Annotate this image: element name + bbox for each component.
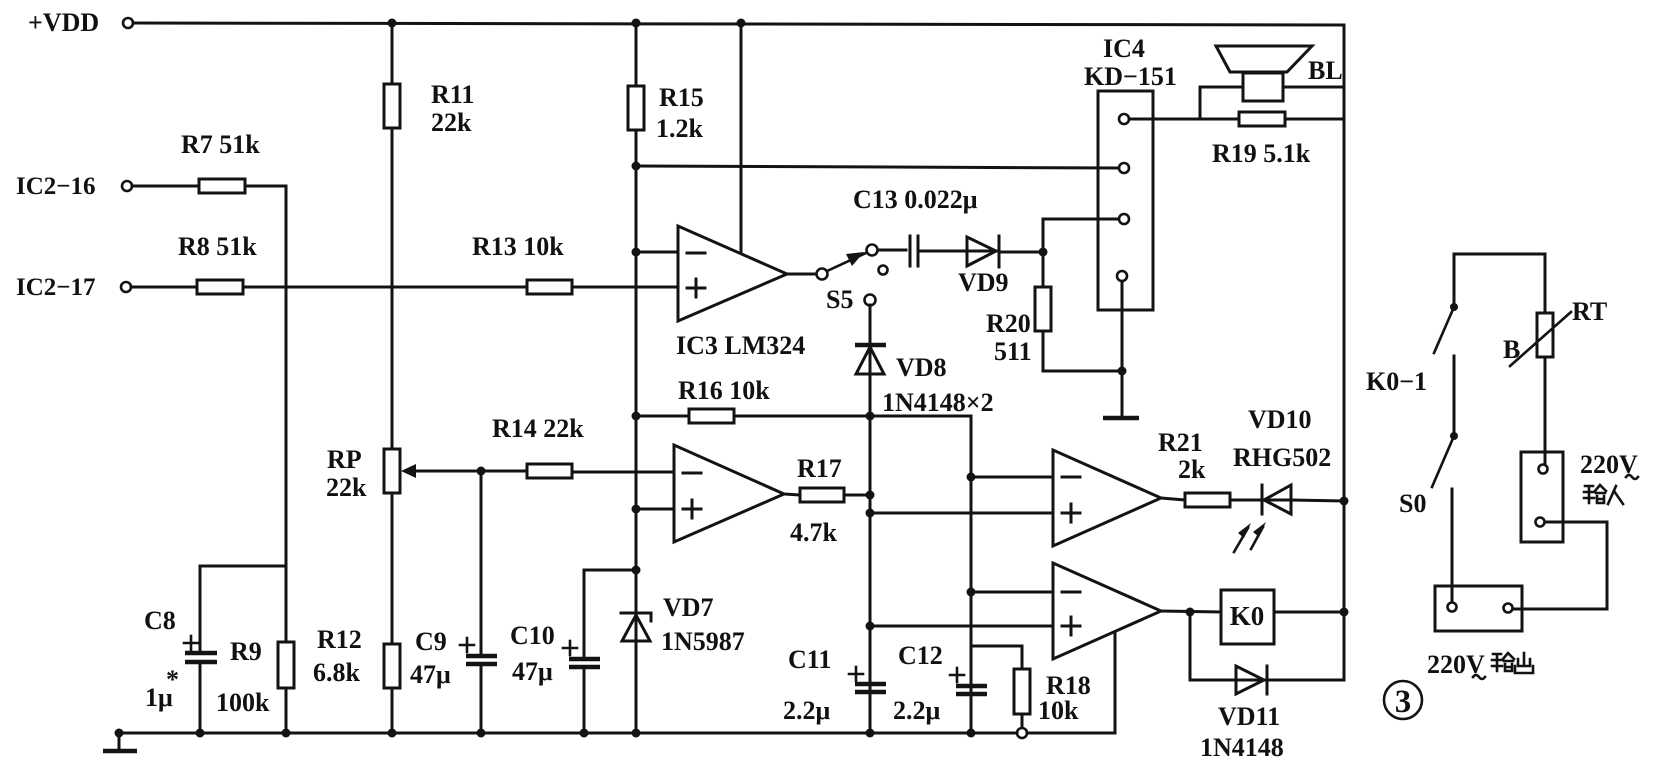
zener diode VD7 <box>621 593 745 733</box>
resistor R17 <box>790 454 844 547</box>
svg-text:VD9: VD9 <box>958 268 1009 297</box>
svg-text:IC2−17: IC2−17 <box>16 274 96 301</box>
junction ground node <box>1118 367 1127 376</box>
junction IC3b plus <box>632 505 641 514</box>
svg-text:S5: S5 <box>826 285 853 314</box>
wire RT top <box>1544 254 1547 313</box>
switch S5 throw 3 <box>826 285 876 314</box>
wire to IC3c minus input <box>971 476 1053 479</box>
wire to IC3d minus input <box>971 591 1053 594</box>
svg-text:VD7: VD7 <box>663 593 714 622</box>
junction rail C10 <box>580 729 589 738</box>
resistor R16 <box>678 376 770 423</box>
wire rail to op-amp IC3d <box>1027 632 1115 733</box>
svg-text:10k: 10k <box>1038 696 1079 725</box>
wire C8 top link <box>200 565 286 568</box>
wire R19 to right bus <box>1285 118 1343 121</box>
wire R13 to IC3 plus input <box>572 286 678 289</box>
wire C9 branch <box>480 471 483 655</box>
svg-text:IC4: IC4 <box>1103 34 1145 63</box>
svg-text:1N4148×2: 1N4148×2 <box>882 388 994 417</box>
junction RP wiper / C9 <box>477 467 486 476</box>
wire VD8 branch from S5 <box>869 305 872 345</box>
resistor R15 <box>628 83 704 143</box>
op-amp IC3c <box>1053 450 1161 546</box>
capacitor C10 <box>510 621 600 686</box>
wire R11 wiper line / potentiometer RP <box>326 445 527 502</box>
wire to IC3d plus input <box>870 625 1053 628</box>
label 220V output chinese <box>1492 653 1533 673</box>
capacitor C13 <box>853 185 978 266</box>
wire +VDD top rail <box>133 23 1343 25</box>
wire IC2-17 to R8 <box>131 286 197 289</box>
wire C10 branch <box>584 570 636 658</box>
wire IC3 power from rail <box>740 25 743 251</box>
junction rail C8 <box>196 729 205 738</box>
junction rail left end <box>115 729 124 738</box>
switch S5 throw 1 <box>867 245 878 256</box>
relay K0 <box>1221 590 1274 644</box>
junction on rail at R11 <box>388 19 397 28</box>
wire IC4 pin1 to R19 <box>1129 118 1239 121</box>
pin IC4-2 <box>1119 163 1129 173</box>
switch S5 throw 2 <box>879 266 888 275</box>
wire VDD to R15 <box>635 23 638 86</box>
wire R12 to rail <box>391 688 394 733</box>
wire R18 to rail <box>1021 714 1024 729</box>
wire K0-1 to S0 <box>1453 356 1456 435</box>
svg-text:C12: C12 <box>898 641 943 670</box>
svg-text:R7 51k: R7 51k <box>181 130 260 159</box>
resistor R9 <box>216 637 294 717</box>
svg-text:+VDD: +VDD <box>28 8 99 37</box>
junction IC3d plus <box>866 622 875 631</box>
svg-text:R13 10k: R13 10k <box>472 232 564 261</box>
svg-text:*: * <box>166 665 179 694</box>
junction rail R12 <box>388 729 397 738</box>
svg-text:511: 511 <box>994 337 1032 366</box>
wire right bus vertical <box>1343 25 1346 680</box>
wire RP bottom to R12 <box>391 493 394 644</box>
svg-text:S0: S0 <box>1399 489 1426 518</box>
wire IC3 minus input <box>636 251 678 254</box>
junction rail R9 <box>282 729 291 738</box>
svg-text:R9: R9 <box>230 637 262 666</box>
svg-text:RP: RP <box>327 445 362 474</box>
wire IC3a output <box>787 273 816 276</box>
wire R16 right to VD8 node and corner <box>734 416 971 477</box>
junction rail C9 <box>477 729 486 738</box>
op-amp IC3a <box>676 226 805 360</box>
wire input box to output box <box>1513 522 1607 609</box>
wire speaker right leg <box>1283 86 1343 89</box>
wire R21 to VD10 <box>1230 499 1260 502</box>
junction on rail at R15 <box>632 19 641 28</box>
junction R15 to IC4 pin wire <box>632 162 641 171</box>
wire C8 down <box>199 566 202 652</box>
svg-text:3: 3 <box>1395 684 1412 720</box>
op-amp IC3b <box>674 445 784 542</box>
wire R20 bottom to ground node <box>1043 331 1122 371</box>
svg-text:R16 10k: R16 10k <box>678 376 770 405</box>
svg-text:R21: R21 <box>1158 428 1203 457</box>
svg-text:C9: C9 <box>415 627 447 656</box>
wire R7 column to R9 <box>285 566 288 642</box>
wire VD10 to right bus <box>1291 500 1344 501</box>
diode VD9 <box>958 236 1009 297</box>
svg-text:VD11: VD11 <box>1218 702 1280 731</box>
svg-text:R14 22k: R14 22k <box>492 414 584 443</box>
svg-text:R15: R15 <box>659 83 704 112</box>
pin IC4-3 <box>1119 214 1129 224</box>
svg-text:C8: C8 <box>144 606 176 635</box>
junction IC3c minus <box>967 473 976 482</box>
junction VD9/R20 node <box>1039 248 1048 257</box>
resistor R19 <box>1212 112 1311 168</box>
wire VD9 to node <box>999 251 1043 254</box>
svg-text:IC2−16: IC2−16 <box>16 173 96 200</box>
wire C12 column <box>970 477 973 733</box>
wire ground rail bottom <box>119 732 1017 735</box>
svg-text:1N5987: 1N5987 <box>661 627 745 656</box>
LED VD10 <box>1233 405 1331 514</box>
capacitor C11 <box>783 645 886 725</box>
svg-text:C10: C10 <box>510 621 555 650</box>
wire K0 to right bus <box>1274 611 1344 614</box>
wire node to R20 <box>1042 252 1045 287</box>
junction VD8 / R16 wire <box>866 412 875 421</box>
wire IC3b output to R17 <box>784 494 800 495</box>
box 220V output <box>1427 586 1522 679</box>
junction rail VD7 <box>632 729 641 738</box>
svg-text:22k: 22k <box>326 473 367 502</box>
svg-text:RHG502: RHG502 <box>1233 443 1331 472</box>
junction K0 right bus <box>1340 608 1349 617</box>
svg-text:47μ: 47μ <box>410 660 451 689</box>
wire R17 to column <box>844 494 870 497</box>
svg-text:VD10: VD10 <box>1248 405 1312 434</box>
wire IC3d output to K0 <box>1161 611 1221 612</box>
wire top link K0-1 to RT <box>1454 253 1545 256</box>
svg-text:B: B <box>1503 335 1520 364</box>
svg-text:R19 5.1k: R19 5.1k <box>1212 139 1311 168</box>
wire R11 to RP <box>391 128 394 449</box>
svg-text:R12: R12 <box>317 625 362 654</box>
wire R7 right then down to C8/R9 <box>245 186 286 566</box>
pin IC4-4 <box>1117 271 1127 281</box>
wire R14 to IC3b minus <box>572 471 674 474</box>
svg-text:R8 51k: R8 51k <box>178 232 257 261</box>
svg-text:RT: RT <box>1572 297 1607 326</box>
wire RT to input box <box>1544 357 1547 464</box>
svg-text:47μ: 47μ <box>512 657 553 686</box>
speaker BL <box>1216 46 1343 101</box>
junction IC3 minus input <box>632 248 641 257</box>
resistor R12 <box>313 625 400 688</box>
resistor R13 <box>472 232 572 294</box>
label 220V input chinese <box>1584 485 1623 504</box>
node R18 rail circle <box>1017 728 1027 738</box>
wire IC4 pin 4 down <box>1121 281 1124 371</box>
wire to IC3c plus input <box>870 512 1053 515</box>
wire to IC4 pin 2 <box>636 166 1119 168</box>
svg-text:6.8k: 6.8k <box>313 658 361 687</box>
svg-text:R17: R17 <box>797 454 842 483</box>
wire VD8 down center column <box>869 374 872 733</box>
svg-text:C13 0.022μ: C13 0.022μ <box>853 185 978 214</box>
node IC2-17 terminal <box>16 274 131 301</box>
wire R8 to R13 <box>243 286 527 289</box>
svg-text:R11: R11 <box>431 80 474 109</box>
svg-text:100k: 100k <box>216 688 270 717</box>
wire IC3b plus input <box>636 508 674 511</box>
op-amp IC3d <box>1053 563 1161 659</box>
wire R16 feedback top <box>636 415 689 418</box>
junction VD10 right bus <box>1340 497 1349 506</box>
junction on rail at IC3 power <box>737 19 746 28</box>
junction rail C12 <box>967 729 976 738</box>
wire C10 to rail <box>583 667 586 733</box>
svg-text:4.7k: 4.7k <box>790 518 838 547</box>
wire S5 to C13 <box>878 249 906 252</box>
svg-text:K0−1: K0−1 <box>1366 367 1427 396</box>
thermistor RT <box>1503 297 1607 366</box>
pin IC4-1 <box>1119 114 1129 124</box>
junction R16 left <box>632 412 641 421</box>
svg-text:VD8: VD8 <box>896 353 947 382</box>
junction IC3c plus <box>866 509 875 518</box>
diode VD11 <box>1200 666 1284 762</box>
switch S5 pole <box>817 269 828 280</box>
note circled 3 <box>1384 681 1422 720</box>
wire speaker left leg <box>1200 87 1243 119</box>
IC U-IC4 box <box>1084 34 1177 310</box>
wire VD11 loop left <box>1190 612 1236 680</box>
switch S5 arm with arrow <box>827 252 866 271</box>
junction rail C11 <box>866 729 875 738</box>
wire S0 to output box <box>1451 489 1454 602</box>
wire R9 to rail <box>285 688 288 733</box>
node IC2-16 terminal <box>16 173 132 200</box>
svg-text:2.2μ: 2.2μ <box>783 696 831 725</box>
wire IC2-16 to R7 <box>132 185 199 188</box>
junction R17 right <box>866 491 875 500</box>
resistor R7 <box>181 130 260 193</box>
node +VDD terminal <box>28 8 133 37</box>
svg-text:22k: 22k <box>431 108 472 137</box>
ground main <box>103 733 137 751</box>
switch K0-1 <box>1366 254 1458 396</box>
junction C10 branch <box>632 566 641 575</box>
capacitor C9 <box>410 627 497 689</box>
svg-text:R20: R20 <box>986 309 1031 338</box>
resistor R20 <box>986 287 1051 366</box>
resistor R18 <box>1014 669 1091 725</box>
wire R15 down main column <box>635 130 638 613</box>
wire C13 to VD9 <box>920 250 967 253</box>
junction K0 left <box>1186 608 1195 617</box>
diode VD8 <box>855 345 994 417</box>
resistor R11 <box>384 80 474 137</box>
ground below IC4 <box>1103 371 1139 418</box>
wire C8 to rail <box>199 662 202 733</box>
wire IC3c output to R21 <box>1161 498 1185 500</box>
light arrows of VD10 <box>1234 522 1266 552</box>
capacitor C8 <box>144 606 217 712</box>
switch S0 <box>1399 432 1458 518</box>
svg-text:C11: C11 <box>788 645 831 674</box>
svg-text:2k: 2k <box>1178 455 1206 484</box>
svg-text:1N4148: 1N4148 <box>1200 733 1284 762</box>
svg-text:1.2k: 1.2k <box>656 114 704 143</box>
junction IC3d minus <box>967 588 976 597</box>
resistor R8 <box>178 232 257 294</box>
wire C9 to rail <box>480 664 483 733</box>
box 220V input <box>1521 450 1638 542</box>
svg-text:K0: K0 <box>1230 601 1265 631</box>
svg-text:IC3 LM324: IC3 LM324 <box>676 331 805 360</box>
wire VDD to R11 <box>391 23 394 84</box>
svg-text:KD−151: KD−151 <box>1084 62 1177 91</box>
wire node up to IC4 pin 3 <box>1043 219 1119 252</box>
capacitor C12 <box>893 641 987 725</box>
resistor R14 <box>492 414 584 478</box>
svg-text:2.2μ: 2.2μ <box>893 696 941 725</box>
wire R18 branch <box>971 646 1022 669</box>
svg-text:BL: BL <box>1308 56 1343 85</box>
resistor R21 <box>1158 428 1230 507</box>
wire VD11 loop right <box>1267 612 1344 680</box>
